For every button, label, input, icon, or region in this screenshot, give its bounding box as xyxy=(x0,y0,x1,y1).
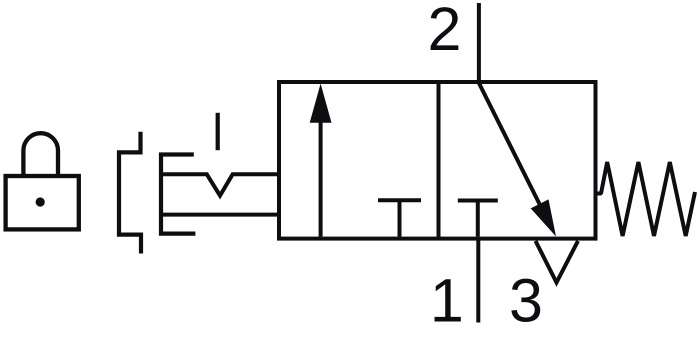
manual tappet bracket xyxy=(161,155,195,234)
return spring xyxy=(596,162,696,236)
exhaust triangle port 3 xyxy=(536,241,579,283)
padlock body xyxy=(6,176,79,229)
svg-text:1: 1 xyxy=(430,266,464,334)
valve chamber separator xyxy=(437,82,441,239)
diagonal flow arrow head xyxy=(531,199,556,236)
svg-text:3: 3 xyxy=(509,266,543,334)
blocked port T (left chamber) xyxy=(378,200,421,236)
port 2 pipe line xyxy=(477,3,481,82)
valve body outline xyxy=(279,82,596,239)
detent latch bracket xyxy=(119,132,141,254)
push rod upper line with detent notch xyxy=(161,174,279,195)
blocked port T (right chamber) xyxy=(458,201,498,237)
diagonal flow line (right chamber) xyxy=(479,83,548,221)
padlock shackle xyxy=(23,133,58,175)
detent pin xyxy=(216,113,220,150)
padlock keyhole dot xyxy=(36,197,45,206)
port 1 pipe line xyxy=(476,239,480,323)
flow arrow head (left chamber) xyxy=(310,84,332,123)
svg-text:2: 2 xyxy=(428,0,462,63)
push rod lower line xyxy=(161,213,279,217)
flow arrow shaft (left chamber) xyxy=(319,110,323,237)
